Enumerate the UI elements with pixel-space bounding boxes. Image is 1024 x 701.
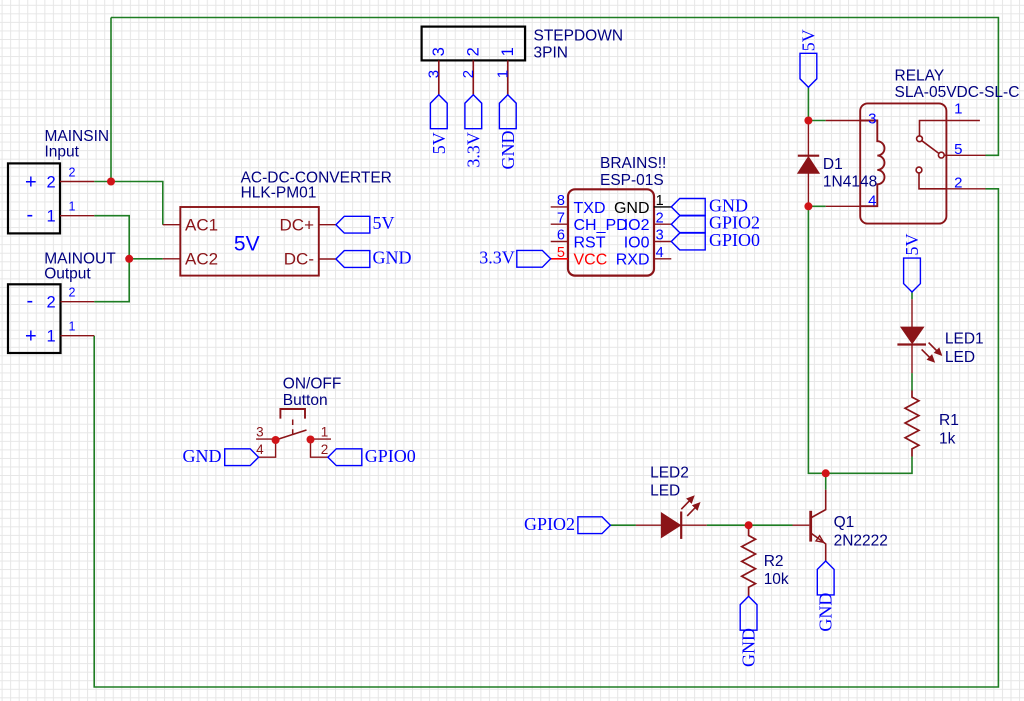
J3 pin 3 stub xyxy=(438,60,440,94)
wire D1 bottom node down to collector rail xyxy=(808,206,912,473)
U1 pin 5 number (highlighted) xyxy=(557,245,565,261)
svg-text:RST: RST xyxy=(574,234,606,251)
svg-text:-: - xyxy=(27,204,34,226)
U1 pin 1 number xyxy=(656,193,664,209)
svg-text:Output: Output xyxy=(44,265,91,282)
net flag GND under Q1 xyxy=(816,561,836,632)
wire net L: left riser to MAINSIN pin2 xyxy=(110,18,112,182)
S1 pin 2 stub xyxy=(311,440,328,457)
U1 pin 2 stub xyxy=(654,223,671,225)
K1 pin 3 number xyxy=(868,111,876,128)
svg-text:2N2222: 2N2222 xyxy=(834,533,888,550)
svg-text:2: 2 xyxy=(47,294,56,312)
K1 coil xyxy=(860,121,884,207)
svg-text:4: 4 xyxy=(868,193,876,210)
svg-text:1N4148: 1N4148 xyxy=(823,173,877,190)
svg-text:3: 3 xyxy=(656,228,664,244)
U1 pin 3 stub xyxy=(654,241,671,243)
svg-text:2: 2 xyxy=(321,442,329,457)
J3 pin 2 number (rotated) xyxy=(460,70,477,78)
U1 pin 4 stub xyxy=(654,258,671,260)
svg-text:IO0: IO0 xyxy=(624,234,650,251)
J2 pin 2 number xyxy=(69,286,76,300)
U1 pin 8 stub xyxy=(551,206,568,208)
wire LED1 cathode to R1 xyxy=(911,373,913,390)
K1 label RELAY / SLA-05VDC-SL-C xyxy=(895,68,1020,101)
svg-text:Button: Button xyxy=(283,392,328,409)
S1 pin 1 stub xyxy=(311,438,332,440)
svg-text:+: + xyxy=(25,326,37,348)
J3 pin 1 number (rotated) xyxy=(494,70,511,78)
R2 label R2 / 10k xyxy=(764,553,789,588)
resistor R1 xyxy=(905,391,919,457)
U2 pin AC2 name xyxy=(185,250,218,269)
U1 label BRAINS!! / ESP-01S xyxy=(600,155,666,189)
svg-text:GND: GND xyxy=(183,446,222,466)
svg-text:5V: 5V xyxy=(373,213,395,233)
svg-text:7: 7 xyxy=(557,210,565,226)
svg-text:8: 8 xyxy=(557,193,565,209)
LED1 label LED1 / LED xyxy=(945,331,984,366)
svg-text:GND: GND xyxy=(614,200,650,217)
svg-text:Q1: Q1 xyxy=(834,514,855,531)
wire MAINSIN pin1 to AC2 xyxy=(94,216,163,259)
svg-text:BRAINS!!: BRAINS!! xyxy=(600,155,666,172)
svg-text:1: 1 xyxy=(499,47,517,56)
svg-text:3.3V: 3.3V xyxy=(463,132,483,168)
K1 pin 5 number xyxy=(954,141,962,158)
net flag GPIO2 at U1 pin2 xyxy=(671,213,760,233)
J2 label MAINOUT / Output xyxy=(44,250,116,282)
svg-text:GPIO2: GPIO2 xyxy=(524,514,575,534)
J3 pin 3 name (inside, rotated) xyxy=(430,47,448,56)
svg-text:DC+: DC+ xyxy=(280,215,315,234)
svg-text:3PIN: 3PIN xyxy=(534,44,568,61)
svg-text:HLK-PM01: HLK-PM01 xyxy=(241,184,317,201)
svg-text:RXD: RXD xyxy=(616,252,650,269)
wire LED2 cathode to Q1 base xyxy=(707,524,793,526)
U2 pin AC1 name xyxy=(185,215,218,234)
connector J3 STEPDOWN 3PIN body xyxy=(422,27,525,61)
svg-text:3: 3 xyxy=(868,111,876,128)
wire D1 bottom node to relay pin4 xyxy=(808,205,825,207)
wire net L: top rail from left riser to relay pin5 xyxy=(111,18,998,156)
K1 pin 4 number xyxy=(868,193,876,210)
S1 pin 4 stub xyxy=(259,440,276,457)
svg-text:1: 1 xyxy=(47,328,56,346)
J1 pin 1 name xyxy=(27,204,56,226)
net flag 5V above D1 xyxy=(798,29,818,87)
svg-text:DC-: DC- xyxy=(284,250,314,269)
svg-text:SLA-05VDC-SL-C: SLA-05VDC-SL-C xyxy=(895,84,1020,101)
U1 pin 7 number xyxy=(557,210,565,226)
U1 pin 4 number xyxy=(656,245,664,261)
Q1 label Q1 / 2N2222 xyxy=(834,514,888,550)
J2 pin 1 stub xyxy=(61,335,95,337)
svg-text:1: 1 xyxy=(494,70,511,78)
svg-text:GND: GND xyxy=(498,131,518,170)
svg-text:5V: 5V xyxy=(798,29,818,51)
junction D1 bottom node xyxy=(804,202,812,210)
svg-text:2: 2 xyxy=(69,286,76,300)
U1 pin CH_PD name xyxy=(574,217,628,234)
wire GPIO2 flag to LED2 anode xyxy=(610,524,636,526)
svg-text:1: 1 xyxy=(69,320,76,334)
R1 label R1 / 1k xyxy=(939,412,959,448)
pushbutton S1 ON/OFF xyxy=(276,409,307,440)
net flag GPIO0 at U1 pin3 xyxy=(671,230,760,250)
svg-text:3: 3 xyxy=(256,425,264,440)
U1 pin VCC name (highlighted) xyxy=(574,252,608,269)
relay K1 body xyxy=(860,103,946,223)
S1 pin 2 number xyxy=(321,442,329,457)
junction R2 top node xyxy=(745,521,753,529)
net flag GND at U1 pin1 xyxy=(671,195,748,215)
J1 pin 2 stub xyxy=(60,181,94,183)
junction Q1 collector node xyxy=(822,469,830,477)
svg-text:-: - xyxy=(27,290,34,312)
svg-text:5V: 5V xyxy=(234,233,260,256)
svg-text:3: 3 xyxy=(430,47,448,56)
S1 pin 4 number xyxy=(256,442,264,457)
net flag 5V under J3 pin3 xyxy=(429,95,449,155)
LED LED2 xyxy=(636,496,707,539)
svg-text:LED: LED xyxy=(650,483,680,500)
IC U1 ESP-01S body xyxy=(568,189,654,275)
svg-text:STEPDOWN: STEPDOWN xyxy=(534,27,624,44)
K1 switch NO contact xyxy=(916,167,946,189)
J3 pin 1 name (inside, rotated) xyxy=(499,47,517,56)
svg-text:+: + xyxy=(25,171,37,193)
U1 pin 6 stub xyxy=(551,241,568,243)
svg-text:LED1: LED1 xyxy=(945,331,984,348)
U1 pin 8 number xyxy=(557,193,565,209)
svg-text:D1: D1 xyxy=(823,156,843,173)
K1 pin 5 stub xyxy=(947,154,985,156)
svg-text:GPIO0: GPIO0 xyxy=(365,446,416,466)
connector J1 MAINSIN xyxy=(8,163,60,233)
svg-text:2: 2 xyxy=(465,47,483,56)
junction AC2 node xyxy=(125,255,133,263)
U1 pin 2 number xyxy=(656,210,664,226)
converter U2 AC-DC HLK-PM01 body xyxy=(180,207,318,276)
LED2 label LED2 / LED xyxy=(650,465,689,500)
transistor Q1 2N2222 xyxy=(793,490,826,561)
wire MAINOUT pin2 to AC2 junction xyxy=(94,259,129,302)
U2 label AC-DC-CONVERTER / HLK-PM01 xyxy=(241,170,392,202)
svg-text:4: 4 xyxy=(256,442,264,457)
S1 pin 3 number xyxy=(256,425,264,440)
net flag 5V above LED1 xyxy=(902,234,922,293)
U2 pin DC- stub xyxy=(319,258,336,260)
J3 pin 1 stub xyxy=(507,60,509,94)
K1 pin 1 number xyxy=(954,101,962,118)
J3 pin 2 name (inside, rotated) xyxy=(465,47,483,56)
svg-text:IO2: IO2 xyxy=(624,217,650,234)
D1 label D1 / 1N4148 xyxy=(823,156,877,190)
U2 value 5V xyxy=(234,233,260,256)
U1 pin 3 number xyxy=(656,228,664,244)
J2 pin 2 stub xyxy=(61,301,95,303)
U2 pin DC+ name xyxy=(280,215,315,234)
U1 pin 5 stub (highlighted) xyxy=(551,258,568,260)
diode D1 xyxy=(798,121,819,207)
J2 pin 1 name xyxy=(25,326,56,348)
U1 pin TXD name xyxy=(574,200,606,217)
svg-text:1: 1 xyxy=(321,425,329,440)
wire 5V flag to LED1 anode xyxy=(911,292,913,299)
U1 pin 1 stub (GND, black) xyxy=(654,206,671,208)
wire D1 top node to relay pin3 xyxy=(808,120,825,122)
net flag GPIO2 at LED2 xyxy=(524,514,610,534)
svg-text:ESP-01S: ESP-01S xyxy=(600,172,664,189)
U2 pin AC1 stub xyxy=(163,224,181,226)
wire MAINOUT pin1 to relay pin2 via bottom rail xyxy=(94,189,998,687)
LED LED1 xyxy=(897,299,941,373)
U2 pin DC+ stub xyxy=(319,224,336,226)
U1 pin GND name xyxy=(614,200,650,217)
J1 pin 1 stub xyxy=(60,215,94,217)
J1 pin 2 name xyxy=(25,171,56,193)
S1 label ON/OFF / Button xyxy=(283,376,342,409)
K1 pin 2 stub xyxy=(947,188,985,190)
net flag 3.3V under J3 pin2 xyxy=(463,95,483,168)
net flag GND at DC- xyxy=(336,248,412,268)
J2 pin 2 name xyxy=(27,290,56,312)
junction D1 top node xyxy=(804,117,812,125)
svg-text:GND: GND xyxy=(739,628,759,667)
junction MAINSIN pin2 node xyxy=(107,178,115,186)
svg-text:3: 3 xyxy=(425,70,442,78)
svg-text:R2: R2 xyxy=(764,553,784,570)
J3 pin 2 stub xyxy=(472,60,474,94)
wire 5V flag to D1 top node xyxy=(807,87,809,120)
connector J2 MAINOUT xyxy=(8,284,61,353)
junction button right contact xyxy=(307,436,315,444)
svg-text:6: 6 xyxy=(557,228,565,244)
K1 pin 1 stub xyxy=(947,120,980,122)
svg-text:RELAY: RELAY xyxy=(895,68,945,85)
net flag GND under J3 pin1 xyxy=(498,95,518,170)
svg-text:5: 5 xyxy=(557,245,565,261)
U2 pin DC- name xyxy=(284,250,314,269)
svg-text:TXD: TXD xyxy=(574,200,606,217)
svg-text:R1: R1 xyxy=(939,412,959,429)
U1 pin IO0 name xyxy=(624,234,650,251)
S1 pin 1 number xyxy=(321,425,329,440)
svg-text:GND: GND xyxy=(373,248,412,268)
svg-text:GPIO0: GPIO0 xyxy=(709,230,760,250)
svg-text:CH_PD: CH_PD xyxy=(574,217,628,234)
net flag 5V at DC+ xyxy=(336,213,395,233)
svg-text:1: 1 xyxy=(954,101,962,118)
wire MAINSIN pin2 to AC1 xyxy=(94,182,163,225)
resistor R2 xyxy=(742,525,756,596)
J3 pin 3 number (rotated) xyxy=(425,70,442,78)
svg-text:3.3V: 3.3V xyxy=(479,247,515,267)
svg-text:LED2: LED2 xyxy=(650,465,689,482)
svg-text:1: 1 xyxy=(656,193,664,209)
svg-text:VCC: VCC xyxy=(574,252,608,269)
svg-text:1k: 1k xyxy=(939,431,956,448)
svg-text:2: 2 xyxy=(460,70,477,78)
net flag 3.3V at U1 VCC xyxy=(479,247,551,267)
J1 label MAINSIN / Input xyxy=(45,128,110,160)
U2 pin AC2 stub xyxy=(163,258,181,260)
J1 pin 1 number xyxy=(69,200,76,214)
svg-text:AC2: AC2 xyxy=(185,250,218,269)
svg-text:ON/OFF: ON/OFF xyxy=(283,376,342,393)
svg-text:AC1: AC1 xyxy=(185,215,218,234)
svg-text:4: 4 xyxy=(656,245,664,261)
net flag GND under R2 xyxy=(739,596,759,667)
svg-text:GND: GND xyxy=(816,593,836,632)
U1 pin RST name xyxy=(574,234,606,251)
K1 pin 2 number xyxy=(954,175,962,192)
svg-text:5: 5 xyxy=(954,141,962,158)
U1 pin 7 stub xyxy=(551,223,568,225)
svg-text:2: 2 xyxy=(954,175,962,192)
U1 pin RXD name xyxy=(616,252,650,269)
U1 pin IO2 name xyxy=(624,217,650,234)
svg-text:5V: 5V xyxy=(902,234,922,256)
J1 pin 2 number xyxy=(69,166,76,180)
svg-text:2: 2 xyxy=(47,174,56,192)
svg-text:1: 1 xyxy=(69,200,76,214)
svg-text:Input: Input xyxy=(45,143,80,160)
net flag GND at S1 pin4 xyxy=(183,446,259,466)
svg-text:2: 2 xyxy=(69,166,76,180)
J3 label STEPDOWN / 3PIN xyxy=(534,27,624,61)
K1 pin 3 stub xyxy=(826,120,860,122)
junction button left contact xyxy=(272,436,280,444)
U1 pin 6 number xyxy=(557,228,565,244)
svg-text:2: 2 xyxy=(656,210,664,226)
J2 pin 1 number xyxy=(69,320,76,334)
K1 pin 4 stub xyxy=(826,205,860,207)
net flag GPIO0 at S1 pin2 xyxy=(328,446,416,466)
svg-text:LED: LED xyxy=(945,349,975,366)
svg-text:10k: 10k xyxy=(764,571,789,588)
S1 pin 3 stub xyxy=(256,438,276,440)
K1 switch common arm xyxy=(917,121,948,159)
svg-text:5V: 5V xyxy=(429,132,449,154)
svg-text:1: 1 xyxy=(47,208,56,226)
wire collector junction down to Q1 xyxy=(825,473,827,490)
